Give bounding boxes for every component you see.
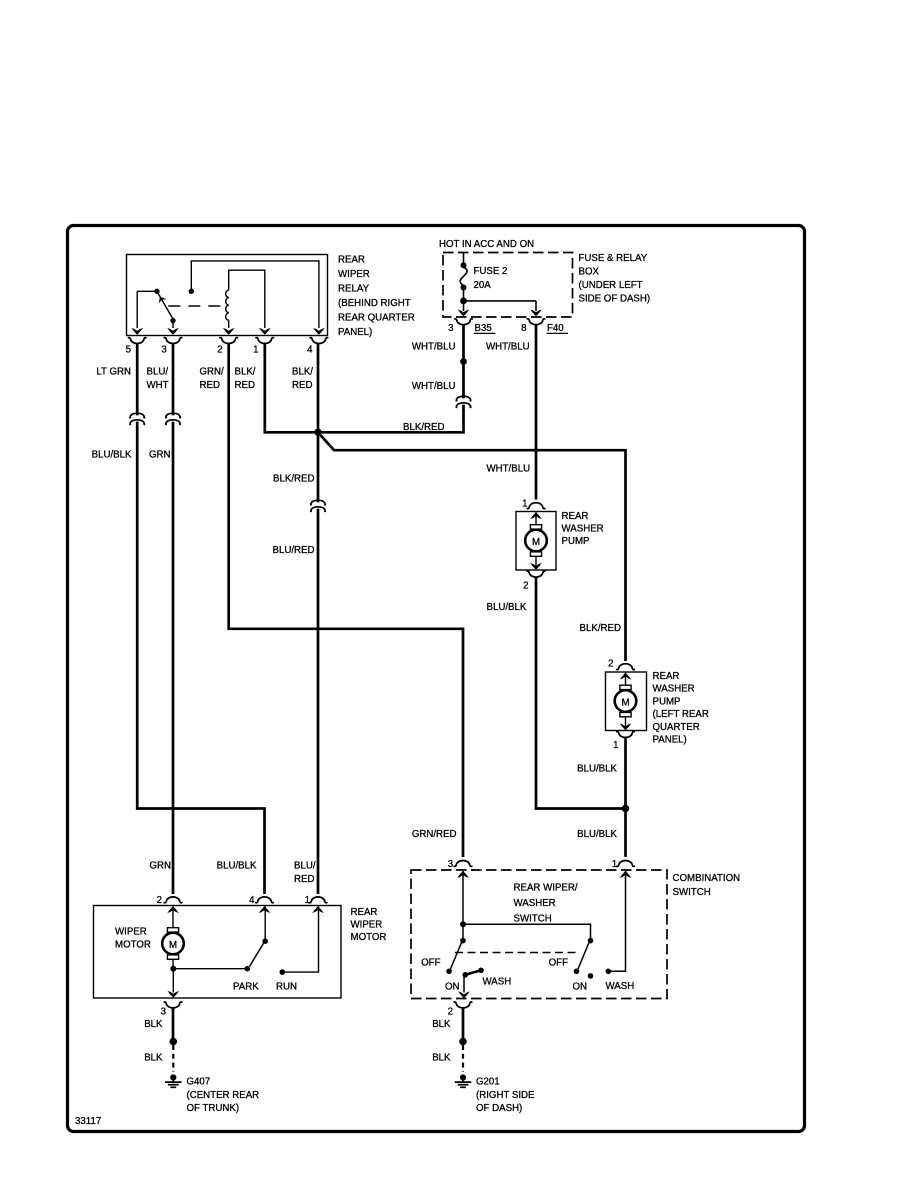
washer pump 2 pin 2 arrow <box>620 673 632 680</box>
svg-text:3: 3 <box>161 345 166 356</box>
svg-text:OF TRUNK): OF TRUNK) <box>187 1103 240 1114</box>
svg-text:RED: RED <box>292 380 312 391</box>
in-line connector on pin 4 wire <box>311 500 325 511</box>
wiper motor return wire <box>172 959 174 967</box>
in-line connector on pin 3 wire <box>166 413 180 424</box>
svg-text:4: 4 <box>249 895 255 906</box>
dashed wire to G407 <box>172 1045 174 1072</box>
svg-text:FUSE 2: FUSE 2 <box>474 266 508 277</box>
svg-text:1: 1 <box>253 345 258 356</box>
washer pump 2 feed wire <box>625 673 627 687</box>
svg-text:OFF: OFF <box>549 958 568 969</box>
relay switch pivot <box>154 289 159 294</box>
svg-text:BLU/RED: BLU/RED <box>273 545 315 556</box>
wiper switch right ON contact <box>588 973 594 979</box>
svg-text:BLU/BLK: BLU/BLK <box>577 764 617 775</box>
washer pump feed wire <box>535 512 537 526</box>
splice on G407 ground wire <box>170 1038 178 1046</box>
svg-text:OFF: OFF <box>421 958 440 969</box>
relay U1 rear wiper relay box <box>127 255 328 336</box>
svg-text:2: 2 <box>608 659 613 670</box>
svg-text:BLK/: BLK/ <box>292 367 313 378</box>
fuse F2 element <box>460 268 467 286</box>
svg-text:BLK: BLK <box>432 1053 451 1064</box>
svg-text:BLU/BLK: BLU/BLK <box>92 450 132 461</box>
svg-text:ON: ON <box>573 982 588 993</box>
wiper motor pin 3 connector <box>164 1002 182 1008</box>
wire combination switch pin 2 to splice <box>462 1008 465 1038</box>
svg-text:4: 4 <box>307 345 313 356</box>
washer pump 2 motor M <box>615 685 637 717</box>
rear washer pump box <box>516 512 556 571</box>
svg-text:RELAY: RELAY <box>338 284 370 295</box>
wire washer pump pin 2 to junction <box>536 578 623 809</box>
svg-text:2: 2 <box>157 895 162 906</box>
combination switch pin 3 connector <box>454 861 472 867</box>
relay wire contact to pin 4 <box>191 261 319 328</box>
svg-text:HOT IN ACC AND ON: HOT IN ACC AND ON <box>439 239 534 250</box>
svg-text:PANEL): PANEL) <box>338 327 372 338</box>
wash switch left contact b <box>478 968 484 974</box>
comb switch pin 3 internal wire <box>462 871 464 924</box>
washer pump pin 1 arrow <box>530 512 542 519</box>
svg-text:WIPER: WIPER <box>338 269 370 280</box>
wiper switch left OFF contact <box>446 969 452 975</box>
wire pin 8 drop <box>535 301 537 311</box>
relay switch common feed wire from pin 5 <box>136 291 138 328</box>
svg-text:PARK: PARK <box>233 982 259 993</box>
svg-text:OF DASH): OF DASH) <box>476 1103 522 1114</box>
svg-text:GRN: GRN <box>149 861 171 872</box>
svg-text:(RIGHT SIDE: (RIGHT SIDE <box>476 1090 535 1101</box>
relay pin 2 arrow <box>223 328 235 335</box>
svg-text:B35: B35 <box>475 323 492 334</box>
junction of pins 1-4 and feed <box>314 429 321 436</box>
svg-text:33117: 33117 <box>75 1116 101 1127</box>
fuse and relay box dashed outline <box>443 253 573 318</box>
svg-text:WASHER: WASHER <box>653 684 695 695</box>
wiper motor pin 1 connector <box>309 897 327 903</box>
washer pump pin 2 arrow <box>530 563 542 570</box>
wire relay pin 4 down to wiper motor pin 1 <box>317 344 320 894</box>
washer pump 2 pin 1 connector <box>617 732 635 738</box>
svg-text:WIPER: WIPER <box>351 920 383 931</box>
relay switch wire to pivot <box>137 290 155 292</box>
park switch wire to pin 4 <box>264 906 266 941</box>
washer pump pin 2 connector <box>527 571 545 577</box>
svg-text:WIPER: WIPER <box>115 927 147 938</box>
svg-text:WHT/BLU: WHT/BLU <box>487 464 531 475</box>
wiper switch mechanical linkage dashed <box>455 952 580 954</box>
svg-text:20A: 20A <box>474 280 492 291</box>
splice on G201 ground wire <box>459 1038 467 1046</box>
svg-text:COMBINATION: COMBINATION <box>673 873 741 884</box>
combination switch pin 1 arrow <box>620 871 632 878</box>
combination switch pin 2 connector <box>454 1002 472 1008</box>
svg-text:WHT/BLU: WHT/BLU <box>486 342 530 353</box>
wiper switch right pivot <box>588 938 594 944</box>
svg-text:PUMP: PUMP <box>562 536 590 547</box>
wiper switch left arm <box>451 943 462 970</box>
relay coil top wire to pin 1 <box>229 270 265 328</box>
relay switch arm arrowhead <box>156 295 166 304</box>
wiper motor M <box>162 928 184 960</box>
fuse feed stub from hot bus <box>463 253 465 264</box>
wire relay pin 5 to wiper motor pin 4 <box>137 344 264 894</box>
wiper switch left pivot <box>460 938 466 944</box>
relay pin 3 arrow <box>167 328 179 335</box>
wiper motor return junction <box>170 966 176 972</box>
svg-text:REAR WIPER/: REAR WIPER/ <box>514 883 578 894</box>
comb switch bridge wire to wiper pole <box>463 924 591 940</box>
relay pin 1 arrow <box>259 328 271 335</box>
svg-text:BLK/: BLK/ <box>235 367 256 378</box>
comb switch junction to left pivot wire <box>462 924 464 939</box>
wiper motor feed wire <box>172 906 174 928</box>
svg-text:(CENTER REAR: (CENTER REAR <box>187 1090 260 1101</box>
svg-text:GRN/: GRN/ <box>200 367 225 378</box>
svg-text:BLK/RED: BLK/RED <box>273 474 314 485</box>
relay coil wire to pin 2 <box>228 320 230 328</box>
svg-text:BLU/BLK: BLU/BLK <box>217 861 257 872</box>
in-line connector on B35 wire <box>456 396 470 407</box>
svg-text:(BEHIND RIGHT: (BEHIND RIGHT <box>338 298 411 309</box>
svg-text:RED: RED <box>235 380 255 391</box>
ground G201 <box>455 1074 472 1087</box>
svg-text:M: M <box>169 940 177 951</box>
svg-text:FUSE & RELAY: FUSE & RELAY <box>579 253 648 264</box>
relay mechanical linkage dashed <box>168 305 224 307</box>
svg-text:REAR: REAR <box>562 511 589 522</box>
svg-text:8: 8 <box>521 323 526 334</box>
svg-text:REAR: REAR <box>338 255 365 266</box>
comb switch internal junction <box>460 921 466 927</box>
wire relay pin 3 to wiper motor pin 2 <box>172 344 175 894</box>
svg-text:RUN: RUN <box>276 982 297 993</box>
wire B35 to junction <box>319 325 464 433</box>
svg-text:BLU/: BLU/ <box>294 861 316 872</box>
svg-text:2: 2 <box>217 345 222 356</box>
svg-text:BOX: BOX <box>579 267 600 278</box>
svg-text:GRN/RED: GRN/RED <box>412 829 457 840</box>
relay pin 4 connector <box>310 338 328 344</box>
washer pump pin 1 connector <box>527 503 545 509</box>
wiper motor pin 4 connector <box>256 897 274 903</box>
svg-text:PANEL): PANEL) <box>653 735 687 746</box>
svg-text:BLK: BLK <box>144 1053 163 1064</box>
svg-text:(LEFT REAR: (LEFT REAR <box>653 709 709 720</box>
svg-text:RED: RED <box>294 874 314 885</box>
wire relay pin 1 to junction <box>265 344 318 433</box>
relay switch NC contact <box>170 318 175 323</box>
fuse output splice <box>460 298 467 305</box>
washer pump 2 pin 1 arrow <box>620 723 632 730</box>
wire splice down to pin 3 <box>463 301 465 311</box>
fuse box pin 8 arrow <box>530 309 542 316</box>
svg-text:WHT/BLU: WHT/BLU <box>412 381 456 392</box>
junction washer pump returns <box>622 805 629 812</box>
rear wiper motor box <box>94 906 342 999</box>
comb switch pin 2 internal wire <box>463 976 465 993</box>
relay pin 5 arrow <box>131 328 143 335</box>
svg-text:BLK: BLK <box>432 1019 451 1030</box>
wash switch left contact a <box>463 972 469 978</box>
washer pump motor M <box>525 525 547 557</box>
svg-text:3: 3 <box>161 1007 166 1018</box>
svg-text:BLK/RED: BLK/RED <box>580 623 621 634</box>
svg-text:WASHER: WASHER <box>514 898 556 909</box>
svg-text:1: 1 <box>522 499 527 510</box>
park switch pivot <box>262 938 268 944</box>
wire splice to pin 8 <box>464 300 537 302</box>
svg-text:REAR QUARTER: REAR QUARTER <box>338 313 415 324</box>
in-line connector on pin 5 wire <box>130 413 144 424</box>
comb switch pin 1 internal wire <box>608 871 625 971</box>
svg-text:RED: RED <box>200 380 220 391</box>
fuse 2 bottom terminal <box>461 285 467 291</box>
wash switch left bridge <box>465 970 481 975</box>
svg-text:2: 2 <box>448 1007 453 1018</box>
wiper switch right OFF contact <box>574 969 580 975</box>
washer pump 2 return wire <box>625 717 627 731</box>
wiper motor park feed wire <box>173 968 247 970</box>
wire junction to right-side washer pump feed <box>318 432 626 661</box>
wire wiper motor pin 3 to splice <box>172 1008 175 1038</box>
svg-text:1: 1 <box>305 895 310 906</box>
park contact <box>245 966 251 972</box>
wiper motor pin 2 arrow <box>167 906 179 913</box>
wiper switch right arm <box>578 943 589 970</box>
wiper motor pin 3 arrow <box>168 991 180 998</box>
svg-text:BLK: BLK <box>144 1019 163 1030</box>
svg-text:WASH: WASH <box>606 981 635 992</box>
svg-text:LT GRN: LT GRN <box>96 367 131 378</box>
svg-text:WASHER: WASHER <box>562 524 604 535</box>
relay switch movable arm <box>158 293 173 319</box>
relay pin 2 connector <box>220 338 238 344</box>
fuse box pin 8 connector F40 <box>527 319 545 325</box>
svg-text:1: 1 <box>612 859 617 870</box>
wire fuse to splice <box>463 290 465 301</box>
svg-text:REAR: REAR <box>351 907 378 918</box>
wiper motor pin 1 arrow <box>312 906 324 913</box>
svg-text:M: M <box>532 537 540 548</box>
svg-text:M: M <box>621 698 629 709</box>
svg-text:SWITCH: SWITCH <box>673 887 711 898</box>
washer pump return wire <box>535 556 537 570</box>
run contact wire to pin 1 <box>282 906 318 972</box>
svg-text:3: 3 <box>448 323 453 334</box>
relay pin 4 arrow <box>313 328 325 335</box>
svg-text:BLK/RED: BLK/RED <box>403 422 444 433</box>
fuse 2 top terminal <box>461 262 467 268</box>
fuse box pin 3 arrow <box>458 309 470 316</box>
relay switch NO contact node <box>189 289 194 294</box>
dashed wire to G201 <box>462 1045 464 1072</box>
ground G407 <box>165 1074 182 1087</box>
relay switch contact wire to pin 3 <box>172 321 174 328</box>
svg-text:5: 5 <box>126 345 131 356</box>
wiper motor pin 2 connector <box>164 897 182 903</box>
wire F40 to rear washer pump pin 1 <box>535 325 538 500</box>
svg-text:GRN: GRN <box>149 450 171 461</box>
svg-text:ON: ON <box>445 982 460 993</box>
wire relay pin 2 to combination switch pin 3 <box>229 344 463 857</box>
rear washer pump 2 box <box>606 672 647 731</box>
svg-text:F40: F40 <box>547 323 564 334</box>
svg-text:BLU/: BLU/ <box>147 367 169 378</box>
svg-text:(UNDER LEFT: (UNDER LEFT <box>579 280 643 291</box>
svg-text:3: 3 <box>448 859 453 870</box>
svg-text:1: 1 <box>613 740 618 751</box>
svg-text:SIDE OF DASH): SIDE OF DASH) <box>579 294 651 305</box>
combination switch dashed outline <box>411 870 667 999</box>
relay pin 3 connector <box>164 338 182 344</box>
svg-text:SWITCH: SWITCH <box>514 914 552 925</box>
svg-text:MOTOR: MOTOR <box>351 932 387 943</box>
splice on WHT/BLU wire <box>460 358 467 365</box>
svg-text:G407: G407 <box>187 1077 211 1088</box>
svg-text:BLU/BLK: BLU/BLK <box>577 829 617 840</box>
wire washer pump 2 pin 1 to combination switch pin 1 <box>624 738 627 857</box>
relay pin 1 connector <box>256 338 274 344</box>
fuse box pin 3 connector B35 <box>455 319 473 325</box>
svg-text:QUARTER: QUARTER <box>653 722 700 733</box>
combination switch pin 1 connector <box>617 861 635 867</box>
svg-text:REAR: REAR <box>653 671 680 682</box>
wiper motor pin 4 arrow <box>259 906 271 913</box>
wiper motor ground wire <box>172 969 174 993</box>
svg-text:WASH: WASH <box>483 977 512 988</box>
combination switch pin 3 arrow <box>457 871 469 878</box>
svg-text:PUMP: PUMP <box>653 696 681 707</box>
washer pump 2 pin 2 connector <box>617 664 635 670</box>
relay coil winding <box>226 290 229 320</box>
svg-text:MOTOR: MOTOR <box>115 940 151 951</box>
svg-text:G201: G201 <box>476 1077 500 1088</box>
park switch arm <box>250 943 264 966</box>
svg-text:WHT: WHT <box>147 380 169 391</box>
svg-text:WHT/BLU: WHT/BLU <box>412 342 456 353</box>
svg-text:BLU/BLK: BLU/BLK <box>487 602 527 613</box>
svg-text:2: 2 <box>523 581 528 592</box>
relay pin 5 connector <box>128 338 146 344</box>
wash switch right contact <box>606 969 612 975</box>
combination switch pin 2 arrow <box>458 991 470 998</box>
run contact <box>280 969 286 975</box>
